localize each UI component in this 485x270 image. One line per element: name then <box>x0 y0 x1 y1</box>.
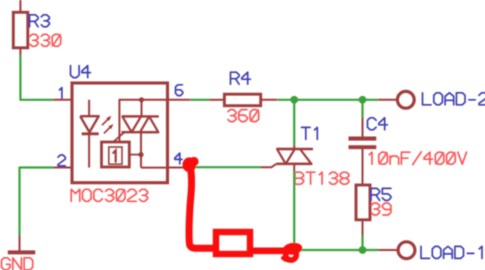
label GND <box>2 258 33 270</box>
resistor R4 <box>210 94 278 106</box>
value 39 <box>372 203 391 215</box>
wire top to T1 <box>293 100 295 147</box>
annotation line to blob <box>252 248 287 255</box>
value MOC3023 <box>71 189 147 201</box>
zero-crossing box 1 <box>102 142 130 167</box>
label T1 <box>302 127 318 139</box>
wire pin2 to GND <box>20 168 54 237</box>
wire zero-cross branch <box>119 100 167 142</box>
pin 6 <box>168 99 191 101</box>
ground GND <box>8 236 35 253</box>
label C4 <box>368 118 388 130</box>
label U4 <box>71 66 91 78</box>
label R4 <box>231 72 251 84</box>
pin 2 <box>54 167 73 169</box>
resistor R5 <box>356 185 370 237</box>
value BT138 <box>295 172 349 184</box>
transistor T1 triac <box>260 146 313 173</box>
value 360 <box>228 110 259 122</box>
resistor R3 <box>13 12 27 48</box>
wire <box>19 0 21 12</box>
wire T1 down <box>293 172 295 247</box>
annotation blob at pin 4 <box>183 157 199 172</box>
node junction C4 top <box>359 96 367 104</box>
annotation stroke from pin4 <box>189 168 213 248</box>
terminal LOAD-2 <box>379 91 415 108</box>
LED inside U4 <box>80 100 99 168</box>
capacitor C4 <box>349 118 377 186</box>
LED light arrows <box>102 116 113 134</box>
value 10nF/400V <box>369 152 466 165</box>
triac inside U4 <box>122 100 159 168</box>
value 330 <box>30 34 61 46</box>
node junction top <box>139 97 144 102</box>
wire R4 to LOAD-2 <box>277 99 378 101</box>
wire R5 to rail <box>361 236 363 250</box>
pin number 1 <box>60 88 62 99</box>
terminal LOAD-1 <box>379 242 415 259</box>
pin 4 <box>168 167 191 169</box>
gate line inside U4 <box>113 132 125 142</box>
label R3 <box>30 15 50 27</box>
pin number 4 <box>175 153 182 164</box>
pin number 6 <box>176 85 183 96</box>
label LOAD-2 <box>423 93 485 105</box>
wire pin4 inside <box>141 167 168 169</box>
wire R3 to pin1 <box>20 48 53 100</box>
wire pin4 to gate <box>190 166 261 168</box>
pin 1 <box>54 99 73 101</box>
label R5 <box>371 188 391 200</box>
annotation blob right <box>282 242 303 261</box>
annotation rectangle <box>216 232 250 254</box>
wire bottom rail <box>294 249 378 251</box>
node junction T1 top <box>290 96 298 104</box>
wire pin6 to R4 <box>190 99 210 101</box>
op-amp U1 / optocoupler U4 box <box>72 83 168 183</box>
pin number 2 <box>58 155 65 166</box>
wire top to C4 <box>361 100 363 119</box>
node junction R5 bottom <box>359 246 367 254</box>
node junction mid <box>129 152 143 157</box>
label LOAD-1 <box>421 246 482 258</box>
